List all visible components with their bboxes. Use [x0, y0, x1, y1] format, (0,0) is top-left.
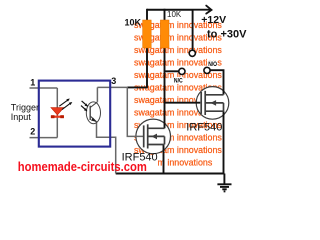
opto box U1 [39, 81, 110, 147]
svg-text:to +30V: to +30V [207, 29, 247, 41]
wire: left resistor vertical [146, 9, 148, 88]
led arrow 2 [62, 103, 71, 110]
mosfet Q1 circle (white fill covers watermark) [136, 119, 171, 154]
wire: black joint y87.4 [127, 86, 148, 88]
LED D1 [51, 99, 72, 119]
svg-text:homemade-circuits.com: homemade-circuits.com [18, 159, 147, 174]
contact circle pole [189, 50, 195, 56]
photo arrow 2 [81, 106, 87, 111]
svg-text:Input: Input [11, 112, 32, 122]
wire: LED vertical [56, 88, 58, 138]
svg-text:N/O: N/O [208, 61, 217, 68]
emitter arrowhead [91, 118, 97, 123]
ground [217, 174, 231, 192]
resistor R2 10K [160, 20, 169, 48]
contact circle N/O [204, 67, 210, 73]
supply arrowhead [206, 6, 211, 14]
mosfet Q1 symbol [144, 124, 165, 148]
photo arrow 1 [82, 101, 88, 106]
label N/C [173, 77, 183, 83]
wire: pin1 lead [30, 87, 58, 89]
wire: gate vertical grey [127, 87, 144, 136]
wire: emitter path [97, 122, 116, 174]
watermark swagatam innovations rows [134, 20, 222, 168]
svg-text:N/C: N/C [174, 78, 183, 85]
mosfet Q2 symbol [201, 91, 223, 115]
resistor R1 10K [143, 20, 152, 48]
wire: collector exit [97, 87, 128, 102]
contact circle N/C [179, 68, 185, 74]
wire: supply arrow shaft [193, 9, 210, 11]
wire: Q2 source down [223, 111, 225, 173]
svg-text:+12V: +12V [201, 14, 226, 26]
svg-text:3: 3 [111, 76, 116, 86]
label N/O [208, 61, 218, 67]
svg-text:10K: 10K [125, 18, 142, 28]
wire: Q1 source down [163, 145, 165, 174]
mosfet Q2 circle [196, 87, 229, 120]
wire: contact branch y71.3 [165, 70, 179, 72]
wire: right resistor vertical to Q1 drain [164, 9, 166, 129]
wire: Q2 gate wire [165, 102, 201, 104]
wire: pin2 lead [30, 137, 58, 139]
wire: supply drop to contact [192, 10, 194, 51]
svg-text:m innovations: m innovations [158, 158, 213, 168]
svg-text:10K: 10K [167, 10, 182, 19]
svg-text:1: 1 [30, 78, 35, 88]
led arrow 1 [59, 99, 69, 106]
svg-text:IRF540: IRF540 [186, 121, 222, 133]
svg-text:2: 2 [30, 127, 35, 137]
Q2 body arrow [210, 100, 216, 106]
wire: contact2 to Q2 drain [210, 70, 223, 94]
Q1 body arrow [151, 134, 157, 140]
wire: top +V rail [147, 9, 193, 11]
phototransistor [86, 102, 100, 124]
wire: bottom rail [116, 173, 225, 175]
svg-text:Trigger: Trigger [11, 102, 39, 112]
